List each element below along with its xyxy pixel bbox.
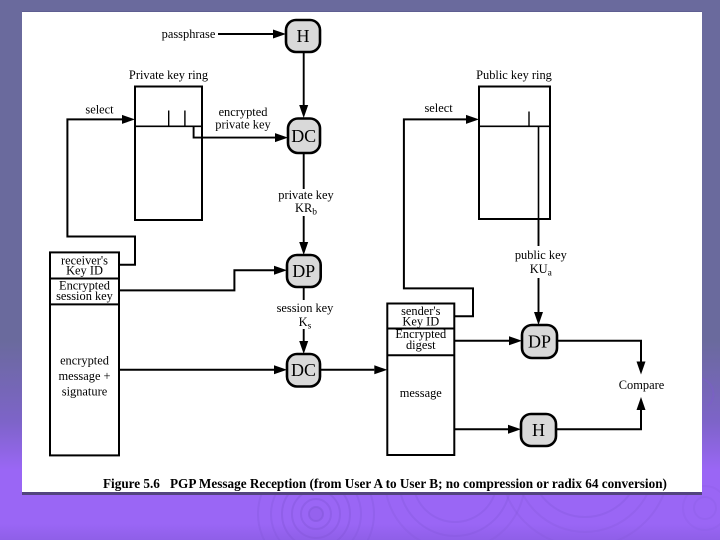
svg-text:public key: public key (515, 248, 568, 262)
box DP (right) (522, 325, 557, 358)
svg-text:DC: DC (291, 360, 316, 380)
svg-text:H: H (532, 420, 545, 440)
svg-text:DP: DP (528, 332, 551, 352)
wire: DC to DP (303, 153, 305, 242)
svg-text:PGP Message Reception (from Us: PGP Message Reception (from User A to Us… (170, 476, 667, 491)
wire: sender's Key ID to public key ring (select loop) (404, 119, 473, 316)
svg-text:digest: digest (406, 338, 436, 352)
svg-text:private key: private key (215, 118, 271, 132)
wire: Encrypted digest to DP (right) (454, 340, 509, 342)
tick mark in public key ring (528, 112, 530, 127)
box DC (lower) (287, 354, 320, 387)
wire: message to H (right) (454, 428, 508, 430)
divider in public key ring (479, 125, 550, 127)
wire: DC (lower) to message box (320, 369, 374, 371)
label: public key KUa (510, 246, 570, 278)
inner column line in public key ring (538, 126, 540, 219)
wire: passphrase to H (218, 33, 274, 35)
wire: private ring to DC (encrypted private key) (194, 126, 275, 137)
svg-text:message +: message + (58, 369, 110, 383)
panel top edge shading (22, 11, 702, 13)
svg-text:Public key ring: Public key ring (476, 68, 552, 82)
tick marks in private key ring (168, 111, 170, 127)
svg-text:passphrase: passphrase (162, 27, 216, 41)
wire: DP to DC (session key) (303, 287, 305, 341)
svg-text:Compare: Compare (619, 378, 665, 392)
box: public key ring (479, 87, 550, 220)
label: session key Ks (274, 300, 334, 329)
label: private key KRb (276, 189, 334, 216)
panel bottom shadow (22, 492, 702, 495)
svg-text:encrypted: encrypted (60, 354, 110, 368)
divider in private key ring (135, 125, 202, 127)
box: private key ring (135, 87, 202, 221)
svg-text:H: H (297, 26, 310, 46)
svg-text:Private key ring: Private key ring (129, 68, 208, 82)
box H (right) (521, 414, 556, 446)
svg-text:DP: DP (292, 261, 315, 281)
svg-text:session key: session key (277, 301, 335, 315)
svg-text:signature: signature (62, 385, 108, 399)
wire: receiver's Key ID to private key ring (select loop) (67, 119, 135, 264)
box: sender column (3 sections) (387, 304, 454, 456)
wire: encrypted message to DC (lower) (119, 369, 274, 371)
box: receiver column (3 sections) (50, 252, 119, 455)
wire: encrypted session key to DP (120, 270, 275, 290)
wire: H (right) to Compare (556, 410, 641, 429)
svg-text:session key: session key (56, 289, 114, 303)
svg-text:select: select (424, 101, 453, 115)
svg-text:Key ID: Key ID (66, 264, 103, 278)
wire: H to DC (303, 52, 305, 106)
wire: public key ring to DP (public key) (538, 219, 540, 312)
svg-text:message: message (400, 386, 442, 400)
svg-text:select: select (85, 103, 114, 117)
svg-text:DC: DC (291, 126, 316, 146)
svg-text:private key: private key (278, 188, 334, 202)
wire: DP (right) to Compare (557, 341, 641, 362)
box DC (upper) (288, 119, 320, 154)
svg-text:Figure 5.6: Figure 5.6 (103, 476, 160, 491)
box H (top) (286, 20, 320, 52)
box DP (left) (287, 255, 321, 287)
